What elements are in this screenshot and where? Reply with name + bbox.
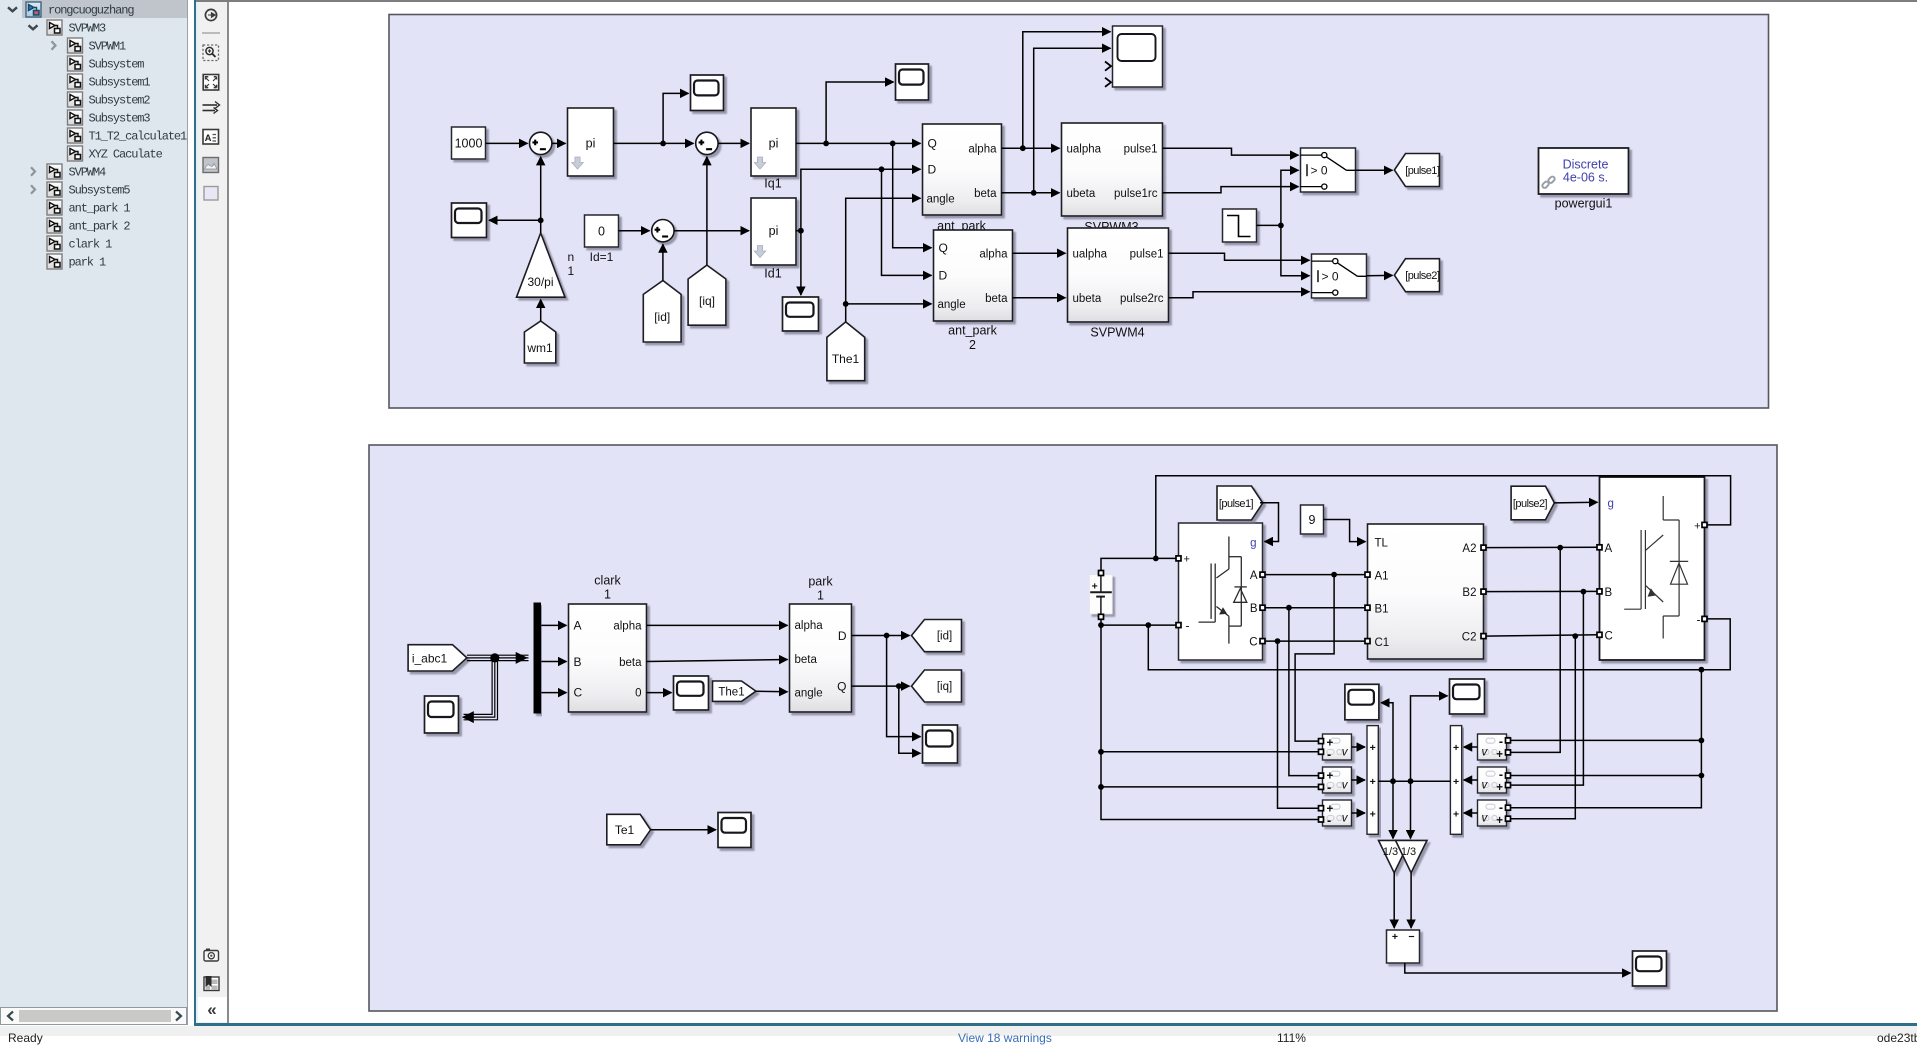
subsystem park 1 <box>789 575 851 713</box>
svg-text:+: + <box>1694 520 1700 532</box>
svg-text:park: park <box>808 575 833 589</box>
junction <box>1698 773 1704 779</box>
wire demux to clark C <box>541 692 566 694</box>
wire to scope U2 <box>1410 696 1447 781</box>
svg-text:TL: TL <box>1374 537 1388 549</box>
voltage measurement VL2 <box>1322 767 1351 795</box>
svg-text:A: A <box>1604 543 1612 555</box>
DC voltage source <box>1089 573 1112 614</box>
junction <box>798 228 804 234</box>
scope err <box>1632 951 1666 986</box>
wire VM R2 to add <box>1463 779 1477 781</box>
scope D <box>782 297 818 331</box>
junction <box>1331 572 1337 578</box>
gain label n 1 <box>567 250 574 278</box>
svg-text:B: B <box>1604 587 1612 599</box>
junction <box>889 141 895 147</box>
junction <box>1098 784 1104 790</box>
subsystem SVPWM3 <box>1061 123 1162 234</box>
svg-text:D: D <box>927 163 936 177</box>
junction <box>1030 190 1036 196</box>
svg-text:park 1: park 1 <box>69 256 107 270</box>
PI controller pi <box>567 108 613 176</box>
wire demux to clark B <box>541 661 566 663</box>
wire to scope in1 <box>886 636 920 737</box>
junction <box>1286 605 1292 611</box>
sum S1 <box>529 132 551 154</box>
wire to ant_park2 Q <box>892 143 931 247</box>
svg-text:T1_T2_calculate1: T1_T2_calculate1 <box>89 130 188 144</box>
junction <box>537 217 543 223</box>
wire to scope in1 <box>1022 32 1110 149</box>
junction <box>1698 738 1704 744</box>
wire VM L2 to add <box>1351 779 1365 781</box>
svg-text:[pulse1]: [pulse1] <box>1405 165 1440 177</box>
wire The1 to park angle <box>756 690 788 693</box>
svg-text:C2: C2 <box>1461 632 1476 644</box>
wire clark 0 to scope <box>646 692 671 694</box>
report icon <box>204 976 219 991</box>
wire bridge1 A to motor A1 <box>1262 574 1367 576</box>
svg-text:1: 1 <box>567 264 574 278</box>
voltage measurement VL1 <box>1322 734 1351 762</box>
svg-text:Q: Q <box>837 680 846 694</box>
scope B <box>895 64 928 100</box>
svg-text:Subsystem: Subsystem <box>89 58 145 72</box>
motor subsystem <box>1367 524 1483 659</box>
svg-text:Discrete: Discrete <box>1562 158 1608 172</box>
wire clark beta to park beta <box>646 660 787 662</box>
wire step out <box>1256 224 1280 226</box>
image tool <box>203 158 219 173</box>
goto tag [pulse2] <box>1394 259 1439 292</box>
svg-text:Q: Q <box>938 241 947 255</box>
wire bridge1 C to motor C1 <box>1262 640 1367 642</box>
wire pulse2rc to SW2 <box>1168 292 1309 298</box>
junction <box>1274 638 1280 644</box>
svg-text:-: - <box>1696 612 1700 626</box>
svg-text:Subsystem2: Subsystem2 <box>89 94 151 108</box>
wire SW2 to [pulse2] <box>1366 274 1392 276</box>
wire Iq1 to ant_park Q <box>796 142 921 144</box>
junction <box>660 141 666 147</box>
svg-text:+: + <box>1391 931 1397 943</box>
wire battery + rail <box>1101 558 1176 573</box>
svg-text:pulse1rc: pulse1rc <box>1114 188 1158 200</box>
svg-text:-: - <box>1498 734 1502 748</box>
svg-text:> 0: > 0 <box>1321 270 1338 284</box>
junction <box>1278 223 1284 229</box>
svg-text:SVPWM3: SVPWM3 <box>69 22 107 36</box>
toolbar icons <box>196 0 227 1023</box>
tree row T1_T2_calculate1 <box>68 128 188 144</box>
wire to scope in2 <box>1033 48 1110 193</box>
wire [id] to S3 <box>661 244 663 280</box>
goto tag [id] (lower) <box>911 620 961 652</box>
svg-text:rongcuoguzhang: rongcuoguzhang <box>48 4 134 18</box>
svg-text:+: + <box>1496 782 1503 794</box>
svg-text:Subsystem1: Subsystem1 <box>89 76 151 90</box>
camera icon <box>204 949 219 962</box>
svg-text:+: + <box>1369 742 1375 754</box>
svg-text:alpha: alpha <box>968 143 997 155</box>
sum block +- <box>1386 930 1419 963</box>
wire - rail bottom <box>1148 619 1730 670</box>
svg-text:A: A <box>1249 570 1257 582</box>
svg-text:[pulse1]: [pulse1] <box>1218 498 1253 510</box>
svg-text:The1: The1 <box>718 686 744 698</box>
svg-text:-: - <box>1327 781 1331 795</box>
junction <box>1572 633 1578 639</box>
wire VM L3 to add <box>1351 812 1365 814</box>
svg-text:pi: pi <box>768 137 778 151</box>
svg-text:pulse2rc: pulse2rc <box>1120 293 1164 305</box>
wire motor C2 to bridge2 C <box>1483 635 1599 636</box>
junction <box>1152 556 1158 562</box>
svg-text:-: - <box>1498 800 1502 814</box>
wire battery - rail <box>1101 617 1176 625</box>
model area (lower) <box>369 445 1777 1011</box>
svg-text:+: + <box>1183 554 1189 566</box>
wire 0 to S3 <box>618 230 649 232</box>
scope (2-input, upper right) <box>1112 26 1162 87</box>
wire pulse1(SVPWM4) to SW2 <box>1168 253 1309 260</box>
svg-text:D: D <box>938 269 947 283</box>
tree row ant_park 2 <box>47 218 130 234</box>
svg-text:[id]: [id] <box>654 310 670 324</box>
wire to gain 1/3 right <box>1409 781 1411 838</box>
svg-text:−: − <box>1408 931 1414 943</box>
goto tag [pulse1] (lower) <box>1217 486 1263 520</box>
svg-text:SVPWM4: SVPWM4 <box>1090 326 1144 340</box>
svg-text:B: B <box>1249 603 1257 615</box>
wire to scope U1 <box>1381 703 1393 781</box>
wire B2 to VM R2 <box>1509 592 1583 786</box>
wire step to SW2 ctl <box>1280 225 1309 275</box>
wire [pulse2] to bridge2 g <box>1554 501 1597 504</box>
svg-text:beta: beta <box>974 188 997 200</box>
svg-text:Subsystem5: Subsystem5 <box>69 184 131 198</box>
scope Te <box>718 813 751 848</box>
goto tag The1 (lower) <box>712 681 756 701</box>
wire The1 to angle <box>845 198 920 322</box>
svg-text:+: + <box>1453 776 1459 788</box>
powergui1 <box>1538 148 1628 211</box>
wire Te1 to scope <box>650 829 715 831</box>
annotation tool <box>203 130 219 145</box>
svg-text:C: C <box>1604 630 1612 642</box>
wire - rail to VM right column <box>1509 670 1701 741</box>
svg-text:XYZ Caculate: XYZ Caculate <box>89 148 163 162</box>
tree scrollbar <box>0 1007 187 1025</box>
svg-text:D: D <box>837 629 846 643</box>
svg-text:ualpha: ualpha <box>1066 143 1101 155</box>
wire bridge1 B to motor B1 <box>1262 607 1367 609</box>
svg-text:alpha: alpha <box>979 248 1008 260</box>
svg-text:> 0: > 0 <box>1310 164 1327 178</box>
svg-text:+: + <box>1496 815 1503 827</box>
signal lines tool <box>203 102 220 114</box>
tree row Subsystem1 <box>68 74 151 90</box>
wire to scope in2 <box>898 686 920 753</box>
from tag [id] <box>643 281 681 343</box>
wire to scope A <box>663 93 688 143</box>
svg-text:The1: The1 <box>831 352 859 366</box>
wire A to VM L1 <box>1295 575 1334 742</box>
goto tag [pulse2] (lower) <box>1511 486 1554 520</box>
tree row SVPWM3 <box>29 20 107 36</box>
IGBT bridge converter 2 <box>1599 477 1704 660</box>
tree row clark 1 <box>47 236 112 252</box>
from tag [iq] <box>688 265 726 325</box>
svg-text:pulse1: pulse1 <box>1123 143 1157 155</box>
svg-text:+: + <box>1369 776 1375 788</box>
svg-text:Te1: Te1 <box>614 823 634 837</box>
svg-text:B1: B1 <box>1374 603 1388 615</box>
tree row Subsystem3 <box>68 110 151 126</box>
subsystem ant_park 2 <box>933 230 1012 352</box>
IGBT bridge converter 1 <box>1178 523 1262 660</box>
scope A <box>690 75 723 111</box>
tree row Subsystem5 <box>31 182 130 198</box>
area tool <box>204 187 218 201</box>
voltage measurement VR2 <box>1477 767 1506 794</box>
svg-text:+: + <box>1453 742 1459 754</box>
svg-text:beta: beta <box>619 657 642 669</box>
svg-text:[iq]: [iq] <box>936 681 951 693</box>
svg-text:ant_park 2: ant_park 2 <box>69 220 131 234</box>
svg-text:1/3: 1/3 <box>1382 846 1397 858</box>
tree row XYZ Caculate <box>68 146 163 162</box>
gain 1/3 (right) <box>1395 840 1427 872</box>
junction <box>1098 622 1104 628</box>
svg-text:2: 2 <box>969 338 976 352</box>
svg-text:4e-06 s.: 4e-06 s. <box>1562 171 1607 185</box>
wire pulse1rc to SW1 <box>1162 187 1298 193</box>
junction <box>1557 545 1563 551</box>
PI controller Id1 <box>751 198 796 281</box>
svg-text:powergui1: powergui1 <box>1554 197 1612 211</box>
junction <box>842 301 848 307</box>
constant 0 (Id=1) <box>584 215 618 264</box>
constant 1000 <box>451 127 485 159</box>
wire demux to clark A <box>541 624 566 626</box>
svg-text:-: - <box>1327 748 1331 762</box>
vector wire i_abc1 to demux <box>466 654 528 656</box>
wire gain to S1 <box>539 157 541 233</box>
svg-text:clark: clark <box>594 574 621 588</box>
voltage measurement VL3 <box>1322 800 1351 828</box>
wire battery minus down <box>1101 625 1321 752</box>
wire gain left to sum <box>1393 873 1395 928</box>
voltage measurement VR3 <box>1477 800 1506 827</box>
sum S3 <box>651 220 673 242</box>
wire to gain 1/3 left <box>1392 781 1394 838</box>
wire + rail to bridge2 <box>1155 476 1730 559</box>
tree row rongcuoguzhang <box>8 2 134 18</box>
junction <box>878 166 884 172</box>
PI controller Iq1 <box>751 108 796 191</box>
svg-text:ualpha: ualpha <box>1072 248 1107 260</box>
svg-text:beta: beta <box>985 293 1008 305</box>
wire [iq] to S2 <box>705 157 707 265</box>
goto tag [pulse1] <box>1394 154 1439 187</box>
add block (left) <box>1367 726 1378 835</box>
model area (upper) <box>389 15 1769 409</box>
svg-text:[pulse2]: [pulse2] <box>1405 270 1440 282</box>
svg-text:Iq1: Iq1 <box>764 177 781 191</box>
wire motor A2 to bridge2 A <box>1483 546 1599 548</box>
sum S2 <box>695 132 717 154</box>
wire S1 to pi <box>552 142 566 144</box>
svg-text:wm1: wm1 <box>526 341 553 355</box>
scope dq <box>922 725 957 763</box>
svg-text:1: 1 <box>604 588 611 602</box>
svg-text:angle: angle <box>937 299 965 311</box>
from tag i_abc1 <box>408 645 467 671</box>
wire alpha2 to ualpha <box>1012 252 1065 254</box>
wire C2 to VM R3 <box>1509 636 1575 819</box>
tree row SVPWM1 <box>52 38 127 54</box>
wire step to SW1 ctl <box>1280 170 1298 225</box>
wire SW1 to [pulse1] <box>1355 169 1392 171</box>
tree row Subsystem2 <box>68 92 151 108</box>
wire to scope C <box>489 219 541 221</box>
junction <box>823 141 829 147</box>
tree row SVPWM4 <box>31 164 106 180</box>
svg-text:0: 0 <box>635 688 641 700</box>
svg-text:B2: B2 <box>1462 587 1476 599</box>
pan/arrow tool <box>205 9 216 20</box>
svg-text:C: C <box>573 686 582 700</box>
svg-text:A2: A2 <box>1462 543 1476 555</box>
wire clark alpha to park alpha <box>646 624 787 626</box>
wire C to VM L3 <box>1277 641 1320 808</box>
wire pi to S2 <box>613 142 693 144</box>
junction <box>1145 622 1151 628</box>
svg-text:ubeta: ubeta <box>1066 188 1095 200</box>
subsystem SVPWM4 <box>1067 228 1168 340</box>
wire park Q to [iq] <box>851 685 909 687</box>
svg-text:+: + <box>1453 809 1459 821</box>
scope C <box>451 203 486 238</box>
svg-text:beta: beta <box>794 654 817 666</box>
wire wm1 to gain <box>539 300 541 322</box>
vector junction <box>490 653 499 662</box>
wire gain right to sum <box>1410 873 1412 928</box>
wire 1000 to S1 <box>485 142 527 144</box>
svg-text:-: - <box>1498 767 1502 781</box>
svg-text:+: + <box>1369 809 1375 821</box>
add block (right) <box>1450 726 1461 835</box>
svg-text:pi: pi <box>768 224 778 238</box>
svg-text:-: - <box>1185 619 1189 633</box>
from tag Te1 <box>606 814 650 845</box>
svg-text:+: + <box>1091 580 1097 592</box>
svg-text:g: g <box>1607 498 1613 510</box>
svg-text:C: C <box>1249 637 1257 649</box>
unconnected ports of scope <box>1105 62 1111 87</box>
wire park D to [id] <box>851 635 909 637</box>
wire VM R1 to add <box>1463 746 1477 748</box>
svg-text:Q: Q <box>927 137 936 151</box>
svg-text:A: A <box>205 133 212 144</box>
svg-text:ant_park: ant_park <box>948 324 997 338</box>
wire Id1 to scope D <box>799 231 801 295</box>
subsystem ant_park <box>922 124 1001 233</box>
gain 30/pi <box>516 233 565 297</box>
constant 9 <box>1300 505 1323 534</box>
scope iabc <box>424 696 458 733</box>
step block <box>1222 209 1256 242</box>
status text <box>8 1031 43 1045</box>
wire sum to scope <box>1404 963 1630 973</box>
scope clark0 <box>673 676 708 710</box>
svg-text:1000: 1000 <box>454 137 482 151</box>
tree row Subsystem <box>68 56 145 72</box>
svg-text:SVPWM1: SVPWM1 <box>89 40 127 54</box>
svg-text:clark 1: clark 1 <box>69 238 113 252</box>
svg-text:g: g <box>1250 538 1256 550</box>
wire VM R3 to add <box>1463 812 1477 814</box>
tree row ant_park 1 <box>47 200 130 216</box>
svg-text:angle: angle <box>926 194 954 206</box>
wire [pulse1] to bridge1 g <box>1260 503 1279 542</box>
junction <box>1390 778 1396 784</box>
scope U1 <box>1344 684 1378 720</box>
port squares <box>1098 522 1707 822</box>
wire to ant_park2 D <box>881 169 931 275</box>
svg-text:ant_park 1: ant_park 1 <box>69 202 131 216</box>
goto tag [iq] (lower) <box>911 670 961 702</box>
wire to scope B <box>826 82 893 143</box>
svg-text:1/3: 1/3 <box>1400 846 1415 858</box>
subsystem clark 1 <box>568 574 646 713</box>
wire S3 to Id1 <box>674 230 749 232</box>
junction <box>1698 667 1704 673</box>
svg-text:A: A <box>573 619 581 633</box>
svg-text:alpha: alpha <box>794 620 823 632</box>
svg-text:-: - <box>1327 814 1331 828</box>
wire Id1 out <box>795 230 800 232</box>
editor frame <box>194 0 1917 2</box>
svg-text:Id1: Id1 <box>764 267 781 281</box>
junction <box>895 683 901 689</box>
voltage measurement VR1 <box>1477 734 1506 761</box>
svg-text:[iq]: [iq] <box>698 294 714 308</box>
vector wire to scope <box>463 658 492 715</box>
wire S2 to Iq1 <box>718 142 749 144</box>
svg-text:i_abc1: i_abc1 <box>411 651 447 665</box>
junction <box>1580 589 1586 595</box>
wire pulse1 to SW1 <box>1162 148 1298 155</box>
wire alpha to ualpha <box>1001 147 1059 149</box>
svg-text:pi: pi <box>585 137 595 151</box>
svg-text:B: B <box>573 655 581 669</box>
wire A2 to VM R1 <box>1509 548 1560 753</box>
svg-text:A1: A1 <box>1374 570 1388 582</box>
svg-text:SVPWM4: SVPWM4 <box>69 166 107 180</box>
svg-text:Subsystem3: Subsystem3 <box>89 112 151 126</box>
svg-text:0: 0 <box>598 225 605 239</box>
zoom tool <box>203 45 219 61</box>
demux <box>534 603 541 713</box>
svg-text:30/pi: 30/pi <box>527 275 553 289</box>
svg-text:pulse1: pulse1 <box>1129 248 1163 260</box>
svg-text:ubeta: ubeta <box>1072 293 1101 305</box>
junction <box>883 633 889 639</box>
svg-text:1: 1 <box>817 589 824 603</box>
